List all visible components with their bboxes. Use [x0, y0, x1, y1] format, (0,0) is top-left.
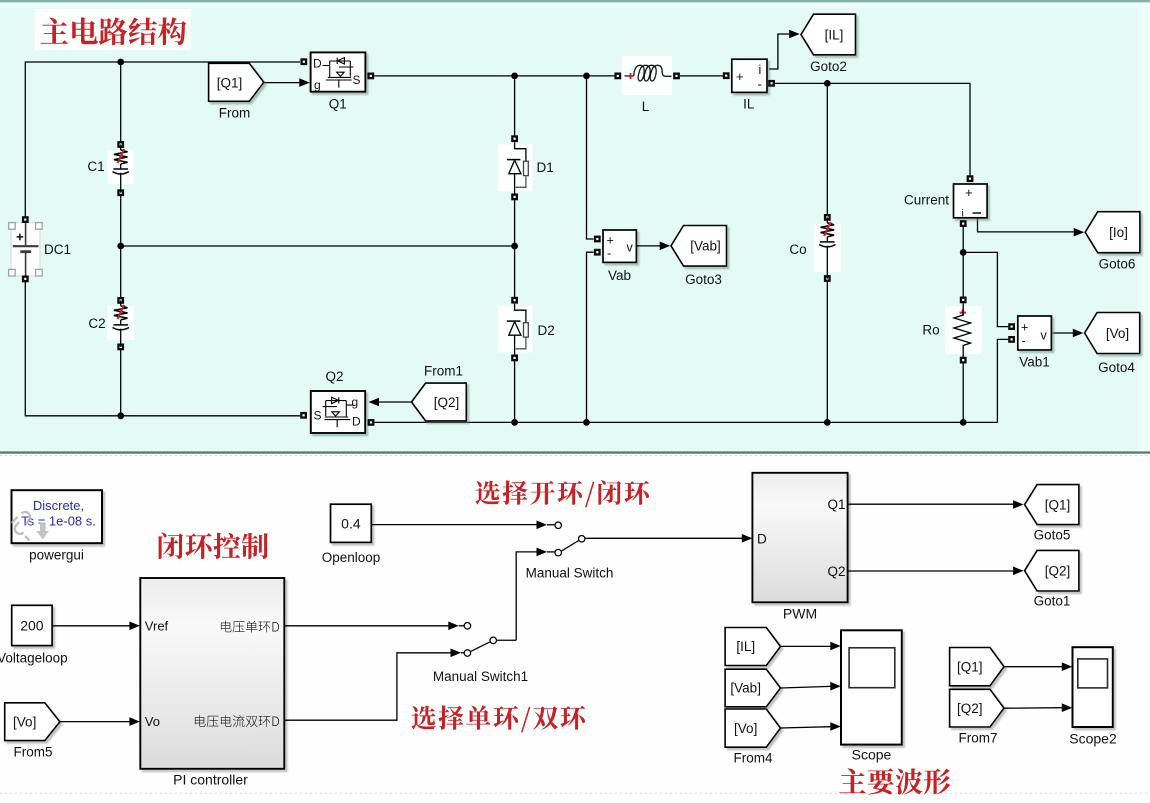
title 主要波形 [839, 768, 950, 794]
wire From to Q1 gate [264, 82, 301, 84]
wire PI out2 to Manual Switch1 in2 [285, 653, 451, 720]
scope Scope2 [1073, 647, 1113, 727]
node D1 top junction [511, 73, 518, 80]
wire From1 to Q2 gate [379, 401, 412, 403]
svg-text:C1: C1 [87, 159, 104, 174]
wire Current minus down [962, 227, 964, 297]
wire IL minus rail to Current [775, 83, 970, 176]
wire C2 bottom drop [120, 347, 122, 416]
wire C1 bottom to mid rail [120, 193, 122, 246]
top teal region [0, 2, 1150, 451]
svg-text:[Q2]: [Q2] [957, 701, 983, 716]
node D2 bottom junction [511, 419, 518, 426]
svg-text:IL: IL [743, 97, 755, 112]
from tag From4 [Vo] [725, 709, 780, 747]
svg-text:Goto5: Goto5 [1034, 528, 1071, 543]
wire D1 top drop [514, 76, 516, 139]
svg-text:[IL]: [IL] [736, 639, 755, 654]
capacitor C2 [107, 297, 134, 350]
svg-text:+: + [1021, 321, 1028, 335]
node output junction [960, 249, 967, 256]
wire From4 Vo to Scope [781, 727, 831, 728]
node junction C1 top rail [117, 59, 124, 66]
svg-text:Q2: Q2 [827, 564, 845, 579]
svg-text:+: + [965, 185, 973, 200]
capacitor Co [814, 214, 841, 282]
svg-text:+: + [607, 234, 614, 248]
wire junction to Vab1 plus [963, 252, 1008, 326]
svg-text:v: v [627, 241, 634, 255]
constant block 0.4 Openloop [331, 504, 372, 542]
wire bottom rail [375, 421, 998, 423]
wire Manual Switch1 output up to Manual Switch in2 [516, 552, 536, 640]
from tag From5 [Vo] [5, 703, 60, 741]
goto tag Goto2 [IL] [801, 14, 856, 55]
svg-text:L: L [642, 99, 650, 114]
svg-text:Vo: Vo [145, 714, 160, 729]
svg-text:PWM: PWM [783, 606, 817, 622]
wire PI out1 to Manual Switch1 in1 [285, 625, 449, 627]
wire Co bottom drop [826, 279, 828, 423]
svg-text:[Q1]: [Q1] [957, 659, 983, 674]
subsystem PWM [752, 473, 847, 603]
title 主电路结构 [35, 9, 191, 50]
svg-text:Vab1: Vab1 [1019, 355, 1050, 370]
wire IL i output to Goto2 [769, 34, 790, 69]
node Co bottom junction [824, 419, 831, 426]
powergui block [12, 490, 103, 543]
wire Vab plus drop [587, 76, 594, 239]
title 选择开环/闭环 [475, 480, 649, 507]
title 闭环控制 [159, 533, 269, 559]
svg-text:DC1: DC1 [44, 242, 71, 257]
svg-text:v: v [1041, 329, 1048, 343]
goto tag Goto6 [Io] [1085, 212, 1140, 253]
svg-text:Voltageloop: Voltageloop [0, 651, 68, 666]
wire Vab1 output to Goto4 [1051, 332, 1074, 334]
from tag From [Q1] [209, 63, 264, 101]
svg-text:From1: From1 [424, 364, 463, 379]
svg-text:S: S [353, 73, 361, 87]
source DC1 (selected) [9, 216, 43, 282]
svg-text:D: D [757, 531, 767, 546]
svg-text:S: S [314, 409, 322, 423]
current sensor Current [954, 175, 988, 227]
wire Vab minus drop [587, 252, 594, 422]
node Ro bottom junction [960, 419, 967, 426]
svg-text:Discrete,: Discrete, [33, 498, 84, 513]
current sensor IL [723, 59, 775, 92]
svg-text:C2: C2 [88, 316, 105, 331]
svg-text:D1: D1 [537, 160, 554, 175]
wire From7 Q1 to Scope2 [1004, 666, 1062, 668]
svg-text:[Vo]: [Vo] [13, 714, 36, 729]
transistor Q1 [300, 52, 374, 92]
wire Openloop to Manual Switch in1 [372, 524, 537, 526]
svg-text:powergui: powergui [29, 548, 84, 563]
svg-text:[Io]: [Io] [1109, 225, 1128, 240]
manual switch Manual Switch [555, 522, 588, 556]
from tag From4 [IL] [725, 628, 780, 666]
svg-text:Goto2: Goto2 [810, 59, 847, 74]
svg-text:[Q2]: [Q2] [434, 395, 460, 410]
goto tag Goto5 [Q1] [1025, 485, 1079, 525]
svg-text:Ro: Ro [922, 323, 939, 338]
diode D2 [498, 297, 533, 362]
goto tag Goto3 [Vab] [637, 226, 727, 267]
inductor L [614, 56, 679, 95]
goto tag Goto4 [Vo] [1085, 313, 1140, 354]
svg-text:i: i [759, 63, 762, 77]
node Co top junction [824, 80, 831, 87]
svg-text:[IL]: [IL] [825, 27, 844, 42]
wire mid rail [121, 245, 515, 247]
scope Scope [841, 630, 902, 744]
capacitor C1 [107, 141, 134, 196]
voltmeter Vab1 [1008, 316, 1051, 350]
svg-text:From4: From4 [733, 751, 772, 766]
svg-text:[Vab]: [Vab] [730, 681, 761, 696]
svg-text:Q2: Q2 [325, 369, 343, 384]
svg-text:Current: Current [904, 193, 949, 208]
svg-text:g: g [314, 78, 321, 92]
svg-text:Goto3: Goto3 [685, 272, 722, 287]
svg-text:D2: D2 [538, 323, 555, 338]
from tag From7 [Q2] [950, 689, 1004, 727]
wire top-left rail from DC1 + to Q1 D [25, 62, 300, 220]
wire Vab1 minus to bottom rail [997, 339, 1008, 422]
svg-text:From7: From7 [958, 731, 997, 746]
svg-text:[Vo]: [Vo] [734, 721, 757, 736]
svg-text:i: i [962, 208, 964, 220]
wire Ro bottom drop [962, 360, 964, 422]
wire From7 Q2 to Scope2 [1004, 707, 1062, 710]
svg-text:[Q2]: [Q2] [1045, 564, 1071, 579]
wire C1 top drop [120, 62, 122, 145]
svg-text:[Q1]: [Q1] [1045, 497, 1071, 512]
wire Q1 S output rail [374, 75, 614, 77]
node Vab junction top [583, 73, 590, 80]
svg-text:200: 200 [20, 618, 44, 634]
wire C2 top drop [120, 246, 122, 300]
node Vab minus bottom junction [583, 419, 590, 426]
voltmeter Vab [594, 230, 637, 262]
svg-text:Manual Switch: Manual Switch [526, 566, 614, 581]
svg-text:D: D [313, 57, 322, 71]
wire PWM Q1 to Goto5 [848, 503, 1013, 505]
svg-text:-: - [758, 77, 762, 92]
wire PWM Q2 to Goto1 [848, 570, 1013, 572]
wire D2 top drop [514, 246, 516, 300]
wire L to IL [680, 75, 723, 77]
from tag From7 [Q1] [950, 648, 1004, 686]
wire From4 IL to Scope [781, 645, 831, 647]
svg-text:Ts = 1e-08 s.: Ts = 1e-08 s. [21, 514, 96, 529]
svg-text:Q1: Q1 [827, 497, 845, 512]
svg-text:-: - [1022, 334, 1026, 348]
wire D1 bottom to mid rail [514, 197, 516, 246]
svg-text:From: From [219, 106, 251, 121]
svg-text:Scope2: Scope2 [1069, 731, 1117, 747]
svg-text:[Vab]: [Vab] [690, 239, 721, 254]
node mid-left junction [117, 243, 124, 250]
from tag From4 [Vab] [725, 669, 780, 707]
svg-text:From5: From5 [13, 745, 52, 760]
svg-text:0.4: 0.4 [341, 516, 361, 532]
title 选择单环/双环 [411, 705, 585, 732]
svg-text:D: D [352, 415, 361, 429]
wire bottom-left rail DC1 - to Q2 S [25, 279, 300, 416]
svg-text:Openloop: Openloop [322, 550, 381, 565]
svg-text:-: - [607, 247, 611, 261]
svg-text:Manual Switch1: Manual Switch1 [433, 669, 528, 684]
svg-text:Goto4: Goto4 [1098, 360, 1135, 375]
svg-text:Scope: Scope [852, 747, 892, 763]
svg-text:Vref: Vref [145, 619, 169, 634]
diode D1 [498, 135, 533, 200]
svg-text:[Q1]: [Q1] [217, 76, 243, 91]
svg-text:+: + [736, 69, 744, 84]
svg-text:Vab: Vab [608, 268, 631, 283]
wire 200 to PI Vref [52, 625, 129, 627]
goto tag Goto1 [Q2] [1025, 550, 1079, 591]
wire D2 bottom drop [514, 358, 516, 423]
wire From4 Vab to Scope [781, 686, 831, 688]
constant block 200 [12, 605, 52, 645]
svg-text:PI controller: PI controller [173, 772, 248, 788]
from tag From1 [Q2] [412, 383, 467, 421]
wire Current i output to Goto6 [978, 218, 1075, 232]
wire Co top drop [826, 83, 828, 217]
svg-text:Q1: Q1 [329, 97, 347, 112]
subsystem PI controller [140, 578, 284, 769]
wire Manual Switch output to PWM D [588, 537, 742, 539]
svg-text:[Vo]: [Vo] [1106, 326, 1129, 341]
svg-text:Co: Co [789, 242, 806, 257]
svg-text:Goto6: Goto6 [1099, 257, 1136, 272]
node mid-right junction D1 D2 [511, 243, 518, 250]
svg-text:g: g [352, 395, 359, 409]
wire From5 to PI Vo [60, 721, 130, 723]
resistor Ro [945, 297, 982, 364]
manual switch Manual Switch1 [464, 623, 516, 657]
svg-text:Goto1: Goto1 [1034, 594, 1071, 609]
transistor Q2 [300, 391, 374, 433]
node C2 bottom junction [117, 412, 124, 419]
